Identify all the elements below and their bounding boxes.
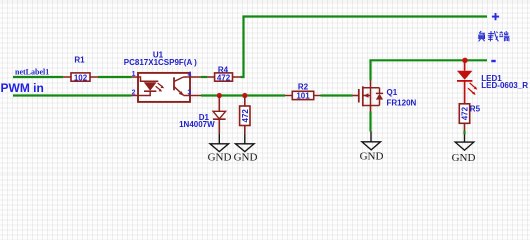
svg-text:R4: R4 [218, 66, 229, 75]
wire drain net to - terminal [371, 60, 488, 80]
resistor R4 [207, 66, 241, 83]
resistor R5 [459, 104, 480, 131]
wire U1 pin3 to R2 [201, 94, 285, 96]
resistor 472 (vertical, unlabeled) [240, 96, 250, 134]
svg-text:LED-0603_R: LED-0603_R [481, 81, 528, 90]
svg-text:R1: R1 [74, 56, 85, 65]
svg-text:102: 102 [74, 73, 88, 82]
resistor R2 [285, 82, 321, 100]
resistor R1 [63, 56, 98, 83]
svg-text:GND: GND [208, 152, 232, 164]
transistor Q1 FR120N [353, 81, 417, 112]
svg-text:R5: R5 [470, 104, 481, 113]
U1 internal LED [144, 82, 157, 91]
ground (below 472 resistor) [234, 133, 258, 163]
node 负载端 (load terminal) [479, 31, 510, 41]
wire Q1 source to ground [369, 112, 371, 132]
wire netLabel1 top-left [13, 76, 63, 78]
op-amp U1 optocoupler PC817X1CSP9F(A) [124, 51, 201, 102]
wire R4 up and across to + terminal [241, 17, 488, 78]
wire R2 to Q1 gate [321, 94, 353, 96]
svg-text:GND: GND [360, 151, 384, 163]
node netLabel1 [15, 68, 49, 77]
svg-text:PWM in: PWM in [1, 81, 44, 95]
ground (below R5) [452, 135, 476, 164]
ground (below D1) [208, 133, 232, 163]
svg-text:4: 4 [188, 71, 192, 78]
svg-text:Q1: Q1 [387, 88, 398, 97]
U1 light arrows [156, 83, 163, 90]
node - terminal [491, 60, 495, 62]
svg-text:3: 3 [187, 90, 191, 97]
svg-text:GND: GND [452, 152, 476, 164]
node + terminal [492, 13, 499, 20]
svg-text:472: 472 [461, 106, 470, 120]
node PWM in [1, 81, 44, 95]
wire R5 to ground [463, 131, 465, 135]
svg-text:netLabel1: netLabel1 [15, 68, 49, 77]
svg-text:GND: GND [234, 152, 258, 164]
node junction 472 resistor [242, 93, 247, 98]
pin 1 [132, 77, 159, 81]
wire PWM in bottom-left [13, 94, 132, 96]
node junction D1 [217, 93, 222, 98]
svg-text:R2: R2 [298, 82, 309, 91]
svg-text:2: 2 [132, 90, 136, 97]
svg-text:FR120N: FR120N [387, 98, 417, 107]
svg-text:1N4007W: 1N4007W [179, 120, 215, 129]
U1 phototransistor [173, 77, 175, 90]
ground (below Q1) [360, 132, 384, 163]
node junction LED1 [462, 58, 467, 63]
wire R1 to U1 pin1 [98, 76, 132, 78]
svg-text:472: 472 [217, 73, 231, 82]
diode D1 1N4007W [179, 96, 225, 134]
LED LED1 LED-0603_R [457, 60, 528, 104]
pin 3 [184, 95, 202, 97]
svg-text:472: 472 [241, 109, 250, 123]
svg-text:1: 1 [132, 71, 136, 78]
pin 2 [132, 91, 151, 96]
svg-text:PC817X1CSP9F(A ): PC817X1CSP9F(A ) [124, 58, 197, 67]
wire U1 pin4 to R4 [201, 76, 207, 78]
pin 4 [184, 76, 202, 78]
svg-text:101: 101 [296, 92, 310, 101]
